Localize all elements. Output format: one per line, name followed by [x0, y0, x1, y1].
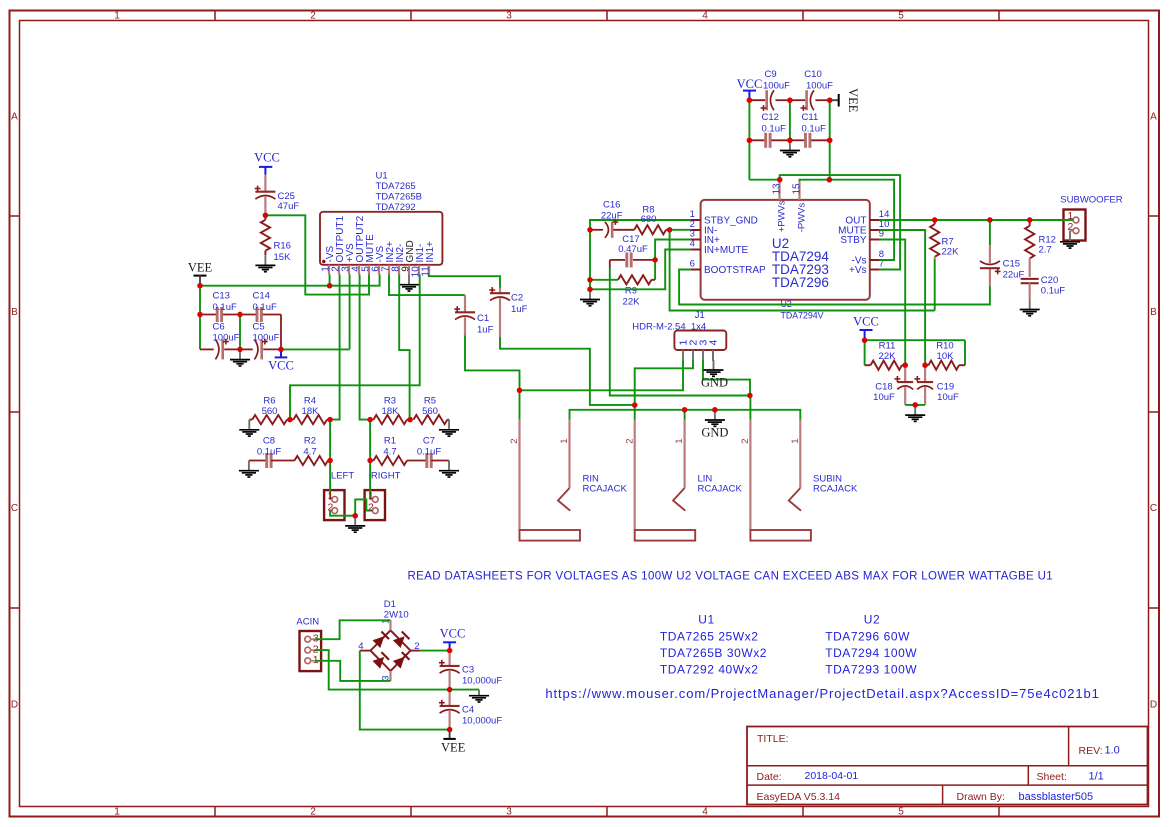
- svg-text:C4: C4: [462, 705, 474, 716]
- title block: [747, 727, 1148, 805]
- net label GND (shield bus): [701, 426, 728, 440]
- wire R3 node down to RIGHT jack pin1: [369, 420, 371, 500]
- svg-text:TDA7292 40Wx2: TDA7292 40Wx2: [660, 662, 759, 676]
- wire shield bus RIN-1/LIN-1/SUBIN-1: [570, 410, 801, 420]
- junction cap row bottom: [237, 347, 283, 352]
- power flag VCC (mute/stby): [853, 315, 879, 341]
- wire OUT1 node down to LEFT jack pin1: [329, 420, 331, 500]
- capacitor C6 100uF: [200, 322, 240, 360]
- ground (C6/C5 mid): [230, 349, 250, 366]
- svg-text:0.1uF: 0.1uF: [253, 302, 277, 313]
- IC U1 TDA7265 body: [320, 212, 442, 265]
- diode bridge D1 2W10: [358, 619, 420, 681]
- junction R11/C18 and R10/C19: [903, 363, 928, 368]
- svg-text:C18: C18: [875, 382, 892, 393]
- wire VEE vertical to cap row: [199, 286, 201, 350]
- junction SUBIN-2 / J1 pin3: [747, 393, 752, 398]
- svg-text:TDA7294 100W: TDA7294 100W: [825, 646, 917, 660]
- svg-text:0.47uF: 0.47uF: [618, 244, 648, 255]
- svg-text:2: 2: [740, 439, 751, 444]
- svg-text:2: 2: [327, 501, 333, 513]
- svg-text:REV:: REV:: [1079, 745, 1103, 757]
- RCA jack SUBIN: [740, 420, 858, 541]
- svg-text:1: 1: [368, 490, 374, 502]
- resistor R2 4.7: [295, 436, 331, 466]
- svg-text:1: 1: [674, 439, 685, 444]
- ground (supply midpoint): [469, 690, 489, 702]
- svg-text:C20: C20: [1041, 275, 1058, 286]
- connector ACIN: [300, 631, 322, 671]
- svg-text:C1: C1: [477, 313, 489, 324]
- svg-text:2: 2: [310, 807, 316, 818]
- capacitor C2 1uF: [489, 287, 527, 337]
- capacitor C15 22uF bootstrap: [980, 220, 1025, 286]
- wire VCC rail to pin13 and +Vs: [749, 175, 900, 269]
- power flag VEE (left): [188, 261, 213, 286]
- svg-text:VCC: VCC: [737, 77, 763, 91]
- diode bridge D1 labels: [384, 599, 409, 621]
- capacitor C20 0.1uF: [1021, 275, 1066, 299]
- svg-text:VEE: VEE: [188, 261, 213, 275]
- junction top cap row: [747, 98, 833, 103]
- svg-text:10K: 10K: [937, 351, 955, 362]
- capacitor C11 0.1uF: [790, 112, 830, 148]
- U2 top pins 13,15: [771, 181, 807, 232]
- svg-text:11: 11: [421, 266, 432, 277]
- svg-text:BOOTSTRAP: BOOTSTRAP: [704, 265, 766, 276]
- svg-text:Drawn By:: Drawn By:: [957, 791, 1005, 803]
- resistor R6 560: [252, 396, 287, 425]
- ground (C20): [1020, 299, 1040, 316]
- svg-text:C2: C2: [511, 293, 523, 304]
- svg-text:TDA7296: TDA7296: [772, 275, 829, 290]
- svg-text:10uF: 10uF: [937, 392, 959, 403]
- resistor R8 680: [634, 205, 669, 235]
- power flag VCC (top): [737, 77, 763, 100]
- junction VCC stem: [862, 338, 867, 343]
- junction cap row top: [197, 312, 242, 317]
- net label GND (J1): [701, 376, 728, 390]
- junction C25/R16: [263, 213, 268, 218]
- svg-text:TDA7296 60W: TDA7296 60W: [825, 630, 910, 644]
- svg-text:GND: GND: [701, 376, 728, 390]
- svg-text:TDA7293 100W: TDA7293 100W: [825, 662, 917, 676]
- ground (J1 pin4): [704, 350, 724, 376]
- capacitor C8 0.1uF: [257, 436, 295, 469]
- wire IN+ node to U2 pin3: [655, 240, 690, 260]
- ground (C7 right): [439, 461, 459, 478]
- ground (LEFT/RIGHT jacks): [345, 516, 365, 533]
- wire ACIN pin3 to D1 pin1: [316, 620, 391, 639]
- wire pin4 IN+MUTE route: [590, 250, 690, 290]
- junction R1/RIGHT: [367, 458, 372, 463]
- U2 left pins 1,2,3,4,6: [690, 209, 766, 276]
- svg-text:100uF: 100uF: [806, 80, 833, 91]
- wire RIN-2 riser: [519, 390, 521, 419]
- svg-text:C19: C19: [937, 382, 954, 393]
- wire C18/C19 bottoms: [905, 404, 925, 406]
- svg-text:C16: C16: [603, 200, 620, 211]
- link text mouser project: [545, 686, 1099, 701]
- power flag VCC (C25): [254, 151, 280, 175]
- ground (R16): [255, 255, 275, 272]
- power flag VCC (supply): [440, 627, 466, 651]
- junction VEE rail: [197, 283, 332, 288]
- svg-text:560: 560: [262, 406, 278, 417]
- wire U1 pin10 IN1- down to feedback row: [290, 275, 420, 420]
- svg-text:0.1uF: 0.1uF: [762, 124, 786, 135]
- wire C16 column to SUBIN-2: [610, 268, 750, 396]
- svg-text:STBY: STBY: [840, 235, 866, 246]
- connector ACIN label: [296, 617, 319, 628]
- svg-text:R2: R2: [304, 436, 316, 447]
- capacitor C19 10uF: [914, 365, 959, 405]
- wire R9 right up to C17 node: [654, 260, 656, 280]
- connector SUBWOOFER label: [1060, 195, 1122, 206]
- svg-text:C13: C13: [213, 291, 230, 302]
- svg-text:2: 2: [368, 501, 374, 513]
- svg-text:C: C: [11, 503, 18, 514]
- capacitor C13 0.1uF: [200, 291, 240, 323]
- junction R8 / U2 pin2: [667, 227, 672, 232]
- capacitor C25 47uF: [255, 175, 300, 216]
- svg-text:TDA7265 25Wx2: TDA7265 25Wx2: [660, 630, 759, 644]
- svg-text:5: 5: [898, 807, 904, 818]
- svg-text:10,000uF: 10,000uF: [462, 715, 502, 726]
- wire U1 pin8 IN2- down to R3/R5 node: [399, 275, 409, 420]
- svg-text:TDA7265B 30Wx2: TDA7265B 30Wx2: [660, 646, 767, 660]
- junction C17/R9/IN+: [652, 257, 657, 262]
- LEFT pin numbers: [327, 490, 333, 513]
- wire LEFT pin2 to ground node: [330, 511, 355, 516]
- svg-text:D: D: [1150, 700, 1157, 711]
- svg-text:4: 4: [358, 641, 363, 652]
- svg-text:IN1+: IN1+: [425, 241, 436, 263]
- power flag VEE (supply): [441, 730, 466, 755]
- resistor R3 18K: [370, 396, 410, 425]
- svg-text:RCAJACK: RCAJACK: [698, 483, 743, 494]
- svg-text:EasyEDA V5.3.14: EasyEDA V5.3.14: [757, 791, 841, 803]
- junction pin15 rail: [827, 177, 832, 182]
- svg-text:560: 560: [422, 406, 438, 417]
- svg-text:100uF: 100uF: [213, 333, 240, 344]
- svg-text:U1: U1: [698, 613, 714, 627]
- wire VCC row R11/R10: [865, 340, 965, 365]
- capacitor C16 22uF: [590, 200, 634, 238]
- U1 reference labels: [376, 171, 422, 213]
- svg-text:4: 4: [702, 807, 708, 818]
- svg-text:5: 5: [898, 11, 904, 22]
- svg-text:2: 2: [509, 439, 520, 444]
- svg-text:2.7: 2.7: [1039, 245, 1052, 256]
- junction R3/R5: [407, 417, 412, 422]
- svg-text:1/1: 1/1: [1089, 771, 1104, 783]
- svg-text:100uF: 100uF: [763, 80, 790, 91]
- U1 pins 1-11 with numbers and labels: [321, 215, 437, 277]
- junction R6/R4: [287, 417, 292, 422]
- wire C1 bottom to RIN-2 node: [465, 335, 520, 390]
- wire VEE rail to U1 pins 1,6: [200, 275, 380, 286]
- svg-text:VCC: VCC: [853, 315, 879, 329]
- svg-text:C: C: [1150, 503, 1157, 514]
- svg-text:4: 4: [702, 11, 708, 22]
- svg-text:RIGHT: RIGHT: [371, 471, 401, 482]
- svg-text:A: A: [11, 112, 18, 123]
- svg-text:3: 3: [506, 807, 512, 818]
- svg-text:VCC: VCC: [268, 359, 294, 373]
- RCA jack LIN: [624, 420, 742, 541]
- wire LIN-2 riser from J1 pin2: [635, 360, 693, 420]
- junction R2/LEFT: [327, 458, 332, 463]
- svg-text:GND: GND: [701, 426, 728, 440]
- svg-text:4: 4: [690, 239, 695, 250]
- junction OUT row: [932, 217, 1032, 222]
- wire ground node to RIGHT pin2: [355, 499, 372, 515]
- wire U2 MUTE to R10/C19: [880, 230, 925, 365]
- ground (cap block): [780, 140, 800, 157]
- svg-text:4.7: 4.7: [383, 447, 396, 458]
- svg-text:D1: D1: [384, 599, 396, 610]
- svg-text:J1: J1: [695, 310, 705, 321]
- ground (shield bus): [705, 410, 725, 427]
- wire D1 pin4 to VEE: [360, 651, 450, 730]
- junction R4/R2/OUT1: [327, 417, 332, 422]
- svg-text:LEFT: LEFT: [331, 471, 354, 482]
- ground (R6 left): [239, 420, 259, 437]
- wire BOOTSTRAP row to C15: [679, 270, 990, 305]
- svg-text:C12: C12: [762, 112, 779, 123]
- capacitor C4 10,000uF: [439, 690, 502, 730]
- ground (U1 pin9): [399, 275, 419, 292]
- capacitor C18 10uF: [873, 365, 913, 405]
- capacitor C14 0.1uF: [240, 291, 281, 323]
- connector J1 labels: [632, 310, 706, 333]
- ground (C18/C19): [905, 405, 925, 422]
- svg-text:10,000uF: 10,000uF: [462, 675, 502, 686]
- svg-text:U2: U2: [864, 613, 880, 627]
- resistor R9 22K: [590, 275, 655, 307]
- svg-text:RCAJACK: RCAJACK: [583, 483, 628, 494]
- svg-text:IN+MUTE: IN+MUTE: [704, 245, 749, 256]
- svg-text:TDA7292: TDA7292: [376, 202, 416, 213]
- power flag VEE (top right): [830, 88, 860, 113]
- junction dots (overlay): [197, 98, 1032, 733]
- resistor R1 4.7: [370, 436, 427, 466]
- svg-text:0.1uF: 0.1uF: [257, 447, 281, 458]
- svg-text:47uF: 47uF: [278, 201, 300, 212]
- svg-text:0.1uF: 0.1uF: [802, 124, 826, 135]
- svg-text:0.1uF: 0.1uF: [1041, 286, 1065, 297]
- wire U1 pin2 OUT1 down to R4/R2 node: [330, 275, 340, 420]
- junction pin13: [777, 177, 782, 182]
- svg-text:1: 1: [790, 439, 801, 444]
- connector LEFT: [324, 490, 344, 520]
- svg-text:2018-04-01: 2018-04-01: [805, 770, 859, 782]
- wire left column (C16- / R9 / gnd): [589, 230, 591, 289]
- svg-text:TDA7265: TDA7265: [376, 181, 416, 192]
- wire U1 pin7 IN2+ to C1: [389, 275, 465, 296]
- wire IN- feedback row: [670, 230, 935, 311]
- svg-text:R9: R9: [625, 286, 637, 297]
- junction C16 left: [587, 227, 592, 232]
- junction C3/C4 midpoint: [447, 687, 452, 692]
- connector J1 HDR-M-2.54_1x4: [674, 331, 726, 360]
- junction R3 left: [367, 417, 372, 422]
- svg-text:-PWVs: -PWVs: [796, 202, 807, 232]
- svg-text:22K: 22K: [879, 351, 897, 362]
- resistor R11 22K: [865, 341, 906, 370]
- note text READ DATASHEETS: [408, 571, 1054, 583]
- svg-text:D: D: [11, 700, 18, 711]
- capacitor C1 1uF: [454, 295, 493, 335]
- ground (input network): [580, 289, 600, 306]
- svg-text:15: 15: [791, 183, 802, 195]
- ground (C8 left): [239, 461, 267, 478]
- svg-text:C15: C15: [1003, 259, 1020, 270]
- svg-text:C8: C8: [263, 436, 275, 447]
- svg-text:C14: C14: [253, 291, 270, 302]
- wire VEE rail to pin15 and -Vs: [800, 180, 895, 260]
- svg-text:18K: 18K: [302, 406, 320, 417]
- svg-text:0.1uF: 0.1uF: [417, 447, 441, 458]
- U2 right pins 14,10,9,8,7: [838, 209, 889, 276]
- svg-text:+PWVs: +PWVs: [776, 200, 787, 232]
- svg-text:2: 2: [624, 439, 635, 444]
- wire U1 pin4 OUT2 down to R3 node: [360, 275, 371, 420]
- svg-text:C3: C3: [462, 665, 474, 676]
- svg-text:1: 1: [114, 807, 120, 818]
- svg-text:ACIN: ACIN: [296, 617, 319, 628]
- resistor R16 15K: [261, 215, 291, 263]
- capacitor C10 100uF: [790, 69, 833, 111]
- wire D1 pin2 to VCC: [420, 650, 450, 652]
- svg-text:bassblaster505: bassblaster505: [1019, 791, 1094, 803]
- svg-text:1.0: 1.0: [1105, 745, 1120, 757]
- svg-text:R1: R1: [384, 436, 396, 447]
- svg-text:4.7: 4.7: [303, 447, 316, 458]
- svg-text:18K: 18K: [382, 406, 400, 417]
- svg-text:Sheet:: Sheet:: [1037, 771, 1067, 783]
- svg-text:SUBWOOFER: SUBWOOFER: [1060, 195, 1122, 206]
- wire ACIN pin2 to supply midpoint: [316, 650, 450, 690]
- ground (SUBWOOFER pin2): [1060, 231, 1080, 248]
- svg-text:13: 13: [771, 183, 782, 195]
- capacitor C17 0.47uF: [610, 234, 655, 268]
- svg-text:4: 4: [707, 339, 719, 345]
- svg-text:22K: 22K: [942, 247, 960, 258]
- U2 center labels: [772, 236, 830, 290]
- IC U2 TDA7294 body: [701, 200, 870, 300]
- connector RIGHT label: [371, 471, 401, 482]
- svg-text:A: A: [1150, 112, 1157, 123]
- svg-text:100uF: 100uF: [253, 333, 280, 344]
- RIGHT pin numbers: [368, 490, 374, 513]
- ground (R5 right): [439, 420, 459, 437]
- svg-text:1: 1: [114, 11, 120, 22]
- capacitor C3 10,000uF: [439, 651, 502, 690]
- resistor R10 10K: [925, 341, 965, 370]
- svg-text:VCC: VCC: [254, 151, 280, 165]
- svg-text:VEE: VEE: [846, 88, 860, 113]
- wire OUT row to SUBWOOFER: [880, 219, 1073, 221]
- svg-text:+Vs: +Vs: [849, 265, 867, 276]
- svg-text:1: 1: [327, 490, 333, 502]
- svg-text:READ DATASHEETS FOR VOLTAGES A: READ DATASHEETS FOR VOLTAGES AS 100W U2 …: [408, 571, 1054, 583]
- svg-text:Date:: Date:: [757, 771, 782, 783]
- svg-text:1uF: 1uF: [477, 325, 494, 336]
- svg-text:3: 3: [381, 675, 392, 680]
- svg-text:RCAJACK: RCAJACK: [813, 483, 858, 494]
- wire U1 pin11 IN1+ to C2: [429, 275, 500, 288]
- wire U2 STBY to R11/C18: [880, 240, 905, 366]
- junction gnd column: [587, 287, 592, 292]
- resistor R5 560: [414, 396, 450, 425]
- svg-text:2: 2: [414, 641, 419, 652]
- wire J1 pin3 to SUBIN-2: [703, 360, 750, 396]
- wire R8 to U2 pin2 IN-: [670, 229, 691, 231]
- resistor R7 22K: [930, 220, 959, 260]
- wire mid green C13/C14 to ground row: [239, 315, 241, 350]
- junction R9 left: [587, 277, 592, 282]
- wire SUBIN-2 riser: [749, 396, 751, 420]
- wire R7 bottom to IN- feedback row: [934, 260, 936, 311]
- connector RIGHT: [365, 490, 385, 520]
- svg-text:0.1uF: 0.1uF: [213, 302, 237, 313]
- capacitor C12 0.1uF: [749, 112, 790, 148]
- wire U2 pin1 STBY_GND: [590, 220, 690, 230]
- svg-text:B: B: [11, 307, 18, 318]
- svg-text:VCC: VCC: [440, 627, 466, 641]
- junction C18/C19 ground: [913, 402, 918, 407]
- svg-text:U1: U1: [376, 171, 388, 182]
- junction C4/VEE: [447, 727, 452, 732]
- U2 name/package labels: [781, 299, 824, 321]
- svg-text:680: 680: [641, 214, 657, 225]
- wire cap block verticals: [749, 100, 829, 180]
- wire C2 bottom to LIN-2 node: [500, 337, 635, 405]
- svg-text:TITLE:: TITLE:: [757, 733, 789, 745]
- table U2 wattage: [825, 613, 917, 677]
- junction RIN-2: [517, 388, 522, 393]
- svg-text:2: 2: [310, 11, 316, 22]
- svg-text:C9: C9: [765, 69, 777, 80]
- svg-text:C11: C11: [802, 112, 819, 123]
- wire midpoint to ground: [450, 689, 479, 691]
- junction shield bus: [682, 407, 718, 412]
- resistor R12 2.7: [1025, 220, 1056, 277]
- svg-text:TDA7294V: TDA7294V: [781, 311, 824, 321]
- svg-text:1: 1: [559, 439, 570, 444]
- wire C14 to VCC corner: [280, 315, 282, 350]
- RCA jack RIN: [509, 420, 627, 541]
- svg-text:3: 3: [506, 11, 512, 22]
- junction LIN-2 / C2: [632, 402, 637, 407]
- wire RIN-2 row to J1 pin1: [520, 360, 684, 391]
- svg-text:22K: 22K: [623, 297, 641, 308]
- svg-text:15K: 15K: [274, 252, 292, 263]
- svg-text:B: B: [1150, 307, 1157, 318]
- svg-text:6: 6: [690, 259, 695, 270]
- connector SUBWOOFER: [1062, 210, 1086, 241]
- svg-text:R16: R16: [274, 241, 291, 252]
- svg-text:C5: C5: [253, 322, 265, 333]
- wire MUTE net: C25/R16 to U1 pin5: [265, 215, 369, 294]
- capacitor C9 100uF: [749, 69, 790, 111]
- capacitor C7 0.1uF: [417, 436, 449, 469]
- svg-text:1uF: 1uF: [511, 304, 528, 315]
- resistor R4 18K: [287, 396, 330, 425]
- svg-text:C6: C6: [213, 322, 225, 333]
